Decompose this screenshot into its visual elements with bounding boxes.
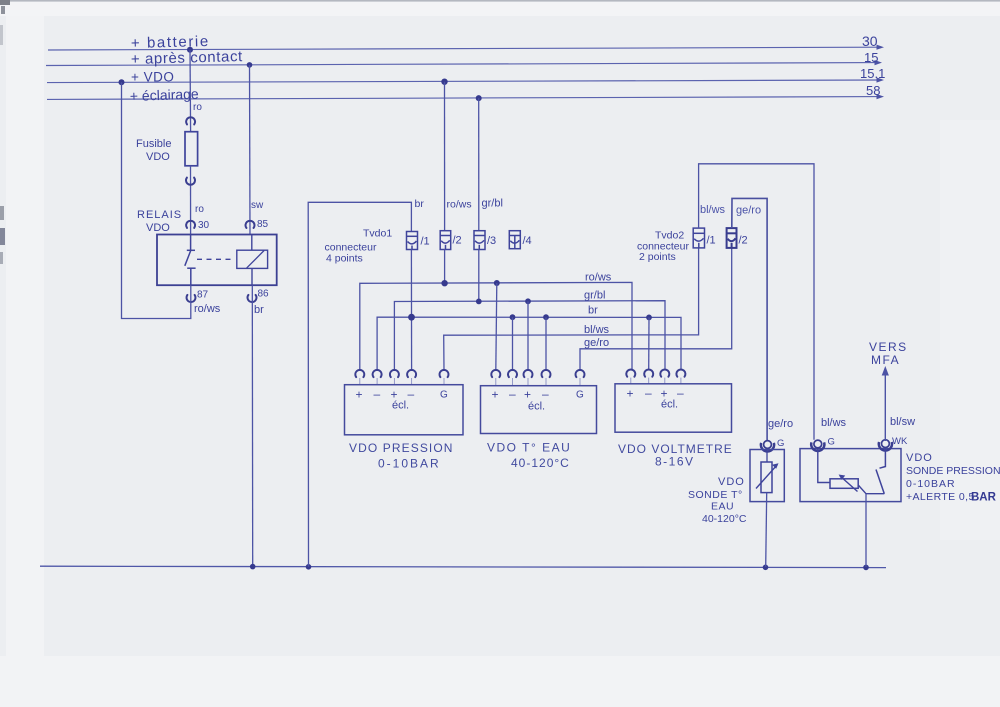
svg-text:/1: /1	[421, 236, 430, 248]
svg-text:VERS: VERS	[869, 340, 908, 354]
svg-text:40-120°C: 40-120°C	[511, 456, 570, 470]
sonde temp R2 box	[750, 450, 784, 502]
svg-text:ge/ro: ge/ro	[584, 337, 609, 349]
bus br with ends to gauge1- and gauge3-2	[377, 317, 681, 371]
bus line 15 apres contact	[46, 63, 878, 66]
svg-text:/2: /2	[453, 235, 462, 247]
wire gauge2 ecl stub	[527, 301, 529, 371]
svg-text:gr/bl: gr/bl	[482, 198, 503, 210]
bus line 15.1 VDO	[47, 80, 880, 83]
wire sonde temp to ground	[766, 493, 767, 567]
svg-text:G: G	[576, 390, 584, 401]
wire 87 to +VDO loop	[122, 82, 191, 318]
svg-text:ge/ro: ge/ro	[768, 418, 793, 430]
svg-text:G: G	[440, 390, 448, 401]
wire gauge2 minus1 stub	[512, 317, 514, 371]
svg-text:ro: ro	[193, 102, 202, 113]
svg-text:0-10BAR: 0-10BAR	[906, 478, 956, 490]
svg-text:+ éclairage: + éclairage	[130, 86, 200, 104]
svg-text:VDO: VDO	[718, 476, 745, 488]
terminal hook fuse top	[186, 117, 195, 124]
wire 85 to coil	[251, 235, 253, 251]
node apres-sw	[247, 62, 253, 68]
terminal hook relay 85	[246, 221, 255, 228]
svg-text:–: –	[542, 387, 549, 401]
svg-text:VDO PRESSION: VDO PRESSION	[349, 441, 454, 455]
node T1/1 br	[408, 314, 415, 321]
svg-text:85: 85	[257, 219, 269, 230]
VERS MFA arrow	[884, 370, 886, 441]
svg-text:+ après contact: + après contact	[131, 48, 244, 68]
thermistor arrow	[756, 465, 777, 489]
ground bus	[40, 566, 886, 567]
svg-text:VDO: VDO	[906, 452, 933, 464]
node VDO-left	[119, 79, 125, 85]
bus ro/ws with ends to gauge1+ gauge3+	[360, 282, 632, 371]
connector T1 pin 3	[474, 231, 485, 250]
svg-text:Tvdo1: Tvdo1	[363, 228, 392, 240]
svg-text:bl/ws: bl/ws	[821, 417, 847, 429]
svg-text:–: –	[645, 386, 652, 400]
svg-text:VDO: VDO	[146, 222, 170, 234]
svg-text:bl/ws: bl/ws	[700, 204, 726, 216]
svg-text:bl/ws: bl/ws	[584, 324, 610, 336]
node gauge2+ ro/ws	[494, 280, 500, 286]
svg-text:G: G	[777, 438, 784, 449]
sonde pression internal wire G	[818, 449, 830, 483]
bus line 58 eclairage	[47, 97, 880, 100]
svg-text:ro/ws: ro/ws	[585, 272, 612, 284]
node gauge2-1 br	[510, 314, 516, 320]
svg-text:/2: /2	[739, 235, 748, 247]
svg-text:Fusible: Fusible	[136, 138, 171, 150]
wire VDO to T1/2	[444, 82, 446, 231]
gauge3 terminal hooks	[626, 370, 635, 377]
wire bl/ws T2/1 to sonde pression G	[699, 164, 814, 440]
gauge1 hook tails	[360, 378, 444, 385]
node ecl-grbl	[476, 95, 482, 101]
svg-text:+ VDO: + VDO	[131, 70, 174, 85]
terminal hook relay 86	[248, 295, 257, 302]
terminal hook fuse bottom	[186, 178, 195, 185]
svg-text:87: 87	[197, 290, 209, 301]
svg-text:/4: /4	[523, 235, 532, 247]
svg-text:2 points: 2 points	[639, 251, 676, 263]
thermistor body	[766, 450, 768, 463]
svg-text:SONDE PRESSION: SONDE PRESSION	[906, 465, 1000, 477]
svg-text:br: br	[415, 198, 425, 210]
bus bl/ws gauge1 G to T2/1	[444, 248, 699, 371]
svg-text:EAU: EAU	[711, 501, 734, 513]
svg-text:écl.: écl.	[528, 401, 545, 413]
node sonde-press-ground	[863, 565, 869, 571]
pressure resistor arrow	[840, 476, 858, 492]
svg-text:15: 15	[864, 50, 878, 65]
bus line 30 batterie	[48, 47, 880, 50]
arrow end 15.1	[877, 77, 885, 82]
node VDO-rows	[441, 79, 447, 85]
wire br riser to connector T1/1	[308, 202, 411, 567]
svg-text:bl/sw: bl/sw	[890, 416, 915, 428]
gauge U3 VDO VOLTMETRE box	[615, 384, 732, 432]
svg-text:G: G	[828, 437, 835, 448]
node gauge3-1 br	[646, 315, 652, 321]
svg-text:15.1: 15.1	[860, 66, 885, 81]
svg-text:/1: /1	[707, 235, 716, 247]
svg-text:ro/ws: ro/ws	[447, 199, 472, 211]
node br-riser-ground	[306, 564, 312, 570]
wire T1/2 down to ro/ws bus	[444, 250, 446, 284]
svg-text:br: br	[254, 304, 264, 316]
svg-text:30: 30	[198, 220, 210, 231]
alert switch fixed contact	[880, 449, 886, 469]
sonde pression B1 box	[800, 449, 901, 502]
wire gauge2 minus2 stub	[545, 317, 547, 371]
svg-text:40-120°C: 40-120°C	[702, 513, 747, 525]
svg-text:–: –	[509, 387, 516, 401]
socket terminal sonde temp G	[761, 441, 774, 452]
pressure resistor	[830, 479, 858, 489]
node T1/3 gr/bl	[476, 299, 482, 305]
gauge3 hook tails	[631, 378, 681, 384]
svg-text:30: 30	[862, 33, 878, 49]
svg-text:VDO: VDO	[146, 151, 170, 163]
connector T1 pin 4 unused	[509, 231, 520, 249]
wire fuse feed	[189, 50, 192, 132]
node sonde-temp-ground	[763, 565, 769, 571]
svg-text:+: +	[492, 388, 499, 402]
svg-text:+: +	[356, 388, 363, 402]
gauge1 terminal hooks	[355, 370, 364, 377]
terminal hook relay 87	[187, 295, 196, 302]
svg-text:SONDE T°: SONDE T°	[688, 489, 743, 501]
gauge U2 VDO T EAU box	[481, 386, 597, 434]
wire ge/ro T2/2 to sonde temp G	[732, 198, 767, 440]
gauge2 hook tails	[496, 378, 580, 386]
svg-text:MFA: MFA	[871, 353, 900, 367]
connector T2 pin 1	[693, 228, 704, 248]
relay K1 box	[157, 235, 277, 286]
svg-text:4 points: 4 points	[326, 253, 363, 265]
svg-text:8-16V: 8-16V	[655, 455, 695, 469]
fuse F1	[185, 132, 198, 166]
svg-text:VDO T° EAU: VDO T° EAU	[487, 441, 571, 455]
alert switch blade	[876, 470, 884, 494]
bus ge/ro gauge2 G to T2/2	[580, 248, 732, 371]
svg-text:ro: ro	[195, 204, 204, 215]
wire eclairage to T1/3	[478, 98, 480, 231]
svg-text:86: 86	[258, 289, 270, 300]
node gauge2-2 br	[543, 314, 549, 320]
svg-text:br: br	[588, 305, 598, 317]
wire 86 to ground	[251, 285, 253, 566]
wire coil to 86	[251, 268, 253, 285]
relay switch contact	[185, 235, 196, 286]
socket terminal sonde pression G	[811, 440, 824, 451]
relay actuation dashed link	[197, 258, 235, 260]
wire gauge3 minus1 stub	[648, 317, 650, 370]
svg-text:ro/ws: ro/ws	[194, 303, 221, 315]
svg-text:écl.: écl.	[392, 400, 409, 412]
svg-text:RELAIS: RELAIS	[137, 209, 182, 221]
wire T1/3 down to gr/bl bus	[478, 250, 480, 302]
connector T2 pin 2	[727, 228, 737, 248]
wire sw 85 feed	[249, 65, 252, 235]
wire sonde pression to ground	[865, 494, 867, 567]
svg-text:0-10BAR: 0-10BAR	[378, 457, 441, 471]
svg-text:écl.: écl.	[661, 399, 678, 411]
svg-text:BAR: BAR	[971, 492, 997, 504]
wire gauge2 plus stub	[496, 283, 497, 371]
terminal hook relay 30	[186, 221, 195, 228]
svg-text:sw: sw	[251, 200, 264, 211]
svg-text:ge/ro: ge/ro	[736, 205, 761, 217]
socket terminal sonde pression WK	[879, 440, 892, 451]
gauge2 terminal hooks	[491, 370, 500, 377]
relay coil	[237, 250, 268, 268]
connector T1 pin 1	[407, 232, 418, 250]
arrow end 58	[877, 94, 885, 99]
svg-text:+: +	[524, 388, 531, 402]
gauge U1 VDO PRESSION box	[345, 385, 464, 435]
wire T1/1 down to gauge1 minus2	[410, 250, 412, 372]
node T1/2 ro/ws	[441, 280, 447, 286]
arrow end 30	[877, 45, 885, 50]
arrow end 15	[875, 60, 883, 65]
wire fuse to relay 30	[190, 166, 192, 235]
svg-text:–: –	[374, 387, 381, 401]
svg-text:/3: /3	[487, 235, 496, 247]
svg-text:58: 58	[866, 83, 880, 98]
bus gr/bl with ends to gauge1 ecl and gauge3 ecl	[394, 301, 665, 371]
pressure internal bottom link	[858, 485, 884, 494]
node batterie-fuse	[187, 47, 193, 53]
node 86-ground	[250, 564, 256, 570]
svg-text:WK: WK	[892, 436, 908, 447]
svg-text:+: +	[627, 387, 634, 401]
connector T1 pin 2	[440, 231, 451, 250]
svg-text:+ALERTE 0,5: +ALERTE 0,5	[906, 491, 975, 503]
node gauge2 ecl gr/bl	[525, 298, 531, 304]
svg-text:gr/bl: gr/bl	[584, 290, 605, 302]
